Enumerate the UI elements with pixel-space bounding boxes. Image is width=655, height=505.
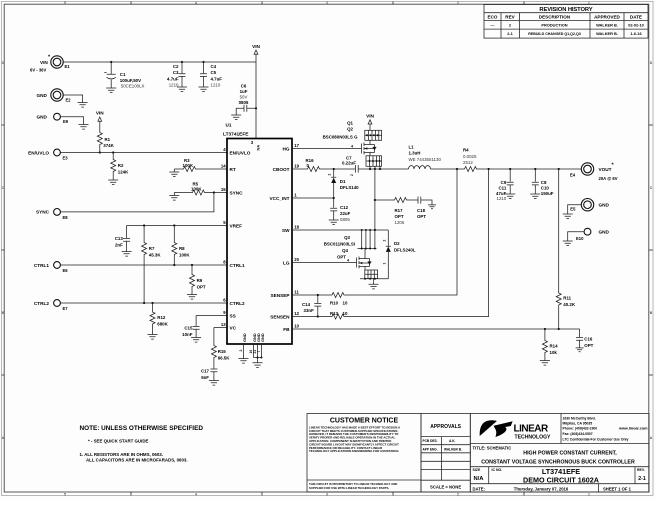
svg-text:C13: C13: [115, 236, 124, 241]
resistor R12: [148, 303, 169, 339]
svg-text:Phone: (408)432-1900: Phone: (408)432-1900: [563, 427, 598, 431]
svg-text:E7: E7: [63, 306, 69, 311]
svg-text:C18: C18: [417, 208, 426, 213]
svg-text:1210: 1210: [211, 83, 221, 88]
resistor R9: [187, 265, 206, 299]
VIN net arrow (top rail): [252, 44, 260, 62]
svg-text:R13: R13: [330, 311, 339, 316]
capacitor C16: [576, 329, 594, 352]
transistor Q3 source block: [360, 270, 388, 280]
svg-text:1210: 1210: [169, 83, 179, 88]
svg-text:4: 4: [195, 492, 197, 496]
svg-text:2: 2: [328, 174, 332, 176]
svg-text:E2: E2: [66, 98, 72, 103]
svg-text:Q2: Q2: [347, 127, 353, 132]
diode D2: [383, 230, 416, 279]
capacitor C14: [302, 295, 321, 318]
op-amp U1 LT3741EFE chip: [221, 123, 300, 345]
svg-text:4: 4: [195, 1, 197, 5]
svg-text:SYNC: SYNC: [36, 210, 50, 215]
svg-text:50V: 50V: [240, 94, 248, 99]
svg-text:DFLS140: DFLS140: [340, 185, 359, 190]
svg-text:DATE: DATE: [630, 14, 642, 19]
svg-text:11: 11: [294, 289, 299, 294]
svg-text:33nF: 33nF: [304, 308, 315, 313]
svg-text:REV: REV: [505, 14, 515, 19]
svg-text:www.linear.com: www.linear.com: [618, 427, 648, 431]
svg-text:0.22uF: 0.22uF: [342, 161, 356, 166]
svg-text:GND: GND: [37, 115, 48, 120]
wire HG: [292, 145, 362, 149]
svg-text:TECHNOLOGY APPLICATIONS ENGINE: TECHNOLOGY APPLICATIONS ENGINEERING FOR …: [309, 449, 399, 453]
svg-text:R11: R11: [563, 296, 571, 301]
capacitor C13: [115, 226, 132, 257]
svg-text:ECO: ECO: [488, 14, 498, 19]
svg-text:REBUILD CHANGED Q1,Q2,Q3: REBUILD CHANGED Q1,Q2,Q3: [528, 32, 581, 36]
wire LG: [292, 259, 357, 263]
svg-text:13: 13: [221, 322, 226, 327]
diode D1: [328, 169, 360, 198]
capacitor C17: [201, 369, 219, 386]
resistor R17: [375, 198, 418, 226]
svg-text:DATE:: DATE:: [473, 486, 485, 491]
svg-text:C3: C3: [173, 70, 179, 75]
ground under Q3: [369, 279, 379, 289]
wire SS: [196, 315, 227, 317]
svg-text:0.0025: 0.0025: [463, 154, 477, 159]
svg-text:C12: C12: [340, 205, 349, 210]
svg-text:R2: R2: [118, 163, 124, 168]
svg-text:SCALE = NONE: SCALE = NONE: [430, 485, 461, 490]
chip bottom ground pin 2: [239, 344, 249, 363]
svg-text:2-1: 2-1: [507, 31, 513, 36]
svg-text:47uF: 47uF: [496, 191, 507, 196]
svg-text:SHEET 1 OF 1: SHEET 1 OF 1: [603, 486, 632, 491]
svg-text:GND: GND: [599, 203, 610, 208]
svg-text:ALL CAPACITORS ARE IN MICROFAR: ALL CAPACITORS ARE IN MICROFARADS, 0603.: [86, 458, 188, 463]
wire SENSEN: [292, 169, 489, 317]
svg-text:VREF: VREF: [230, 223, 243, 228]
svg-text:E3: E3: [63, 156, 69, 161]
resistor R16: [292, 158, 334, 172]
wire EN/UVLO: [60, 152, 227, 154]
svg-text:C4: C4: [211, 64, 217, 69]
resistor R3: [169, 158, 227, 177]
svg-text:3: 3: [326, 1, 328, 5]
wire SENSEP: [292, 169, 457, 296]
svg-text:2nF: 2nF: [115, 243, 123, 248]
terminal E2 GND: [37, 89, 88, 107]
svg-text:Milpitas, CA 95035: Milpitas, CA 95035: [563, 422, 593, 426]
svg-text:R9: R9: [197, 278, 203, 283]
svg-text:10: 10: [343, 311, 348, 316]
svg-text:R4: R4: [463, 148, 469, 153]
svg-text:REVISION HISTORY: REVISION HISTORY: [539, 7, 592, 13]
svg-text:C8: C8: [541, 180, 547, 185]
svg-text:E6: E6: [63, 268, 69, 273]
svg-text:SS: SS: [230, 313, 236, 318]
svg-text:U1: U1: [226, 123, 232, 128]
svg-text:WALKER B.: WALKER B.: [444, 447, 462, 451]
terminal E5 GND: [563, 199, 610, 219]
svg-text:R15: R15: [218, 349, 227, 354]
svg-text:VIN: VIN: [96, 111, 104, 116]
svg-text:TITLE: SCHEMATIC: TITLE: SCHEMATIC: [473, 445, 512, 450]
resistor R11: [556, 169, 576, 330]
capacitor C7: [333, 156, 409, 177]
svg-text:SUPPLIED FOR USE WITH LINEAR T: SUPPLIED FOR USE WITH LINEAR TECHNOLOGY …: [309, 486, 389, 490]
resistor R1: [97, 131, 114, 154]
svg-text:E5: E5: [570, 206, 576, 211]
svg-text:1210: 1210: [497, 196, 507, 201]
svg-text:66.5K: 66.5K: [218, 356, 231, 361]
svg-text:VIN: VIN: [252, 44, 260, 49]
svg-text:DFLS240L: DFLS240L: [394, 247, 416, 252]
terminal E3 EN/UVLO: [28, 149, 68, 160]
terminal E1 VIN: [30, 55, 70, 73]
svg-text:NOTE: UNLESS OTHERWISE SPECIFI: NOTE: UNLESS OTHERWISE SPECIFIED: [80, 425, 204, 432]
capacitor C4 C5: [199, 62, 223, 92]
terminal E10 GND: [563, 228, 610, 245]
svg-text:10: 10: [294, 323, 299, 328]
svg-text:0805: 0805: [239, 100, 249, 105]
customer notice block: [307, 414, 421, 493]
svg-text:40.2K: 40.2K: [563, 302, 576, 307]
svg-text:R17: R17: [395, 208, 404, 213]
svg-text:E9: E9: [63, 119, 69, 124]
svg-text:C11: C11: [498, 185, 506, 190]
svg-text:OPT: OPT: [337, 254, 346, 259]
svg-text:DEMO CIRCUIT 1602A: DEMO CIRCUIT 1602A: [523, 476, 599, 485]
svg-text:1. ALL RESISTORS ARE IN OHMS,: 1. ALL RESISTORS ARE IN OHMS, 0603.: [80, 452, 163, 457]
wire VREF: [127, 224, 227, 226]
svg-text:RT: RT: [230, 167, 236, 172]
svg-text:02-02-10: 02-02-10: [628, 23, 644, 28]
capacitor C2 C3: [167, 62, 187, 92]
svg-text:5: 5: [64, 1, 66, 5]
svg-text:C1: C1: [120, 72, 126, 77]
transistor Q3 mosfet: [357, 249, 372, 271]
svg-text:D1: D1: [340, 179, 346, 184]
VIN net arrow (Q1): [366, 114, 374, 131]
svg-text:LTC Confidential-For Customer: LTC Confidential-For Customer Use Only: [563, 438, 629, 442]
svg-text:680K: 680K: [157, 322, 168, 327]
svg-text:REV.: REV.: [637, 468, 645, 472]
svg-text:EN/UVLO: EN/UVLO: [28, 150, 49, 155]
svg-text:C2: C2: [173, 64, 179, 69]
svg-text:NA: NA: [256, 145, 261, 151]
terminal E9 GND: [37, 113, 89, 129]
svg-text:7: 7: [257, 351, 261, 353]
svg-text:IC NO.: IC NO.: [492, 468, 503, 472]
svg-text:VIN: VIN: [40, 60, 48, 65]
svg-text:100K: 100K: [191, 187, 202, 192]
svg-text:GND: GND: [260, 333, 265, 342]
capacitor C15: [182, 316, 201, 343]
svg-text:CTRL2: CTRL2: [34, 301, 49, 306]
svg-text:LINEAR: LINEAR: [514, 424, 550, 435]
svg-text:3: 3: [326, 492, 328, 496]
capacitor C8 C10: [530, 169, 554, 199]
svg-text:WE 7443551130: WE 7443551130: [409, 157, 442, 162]
svg-text:VC: VC: [230, 325, 237, 330]
svg-text:5: 5: [64, 492, 66, 496]
svg-text:CUSTOMER NOTICE: CUSTOMER NOTICE: [330, 418, 399, 425]
svg-text:5nF: 5nF: [201, 375, 209, 380]
svg-text:CTRL2: CTRL2: [230, 301, 245, 306]
svg-text:E1: E1: [65, 64, 71, 69]
svg-text:C17: C17: [201, 369, 210, 374]
svg-text:SIZE: SIZE: [473, 468, 481, 472]
svg-text:LT3741EFE: LT3741EFE: [223, 132, 249, 138]
svg-text:10nF: 10nF: [182, 332, 193, 337]
svg-text:* - SEE QUICK START GUIDE: * - SEE QUICK START GUIDE: [88, 439, 148, 444]
svg-text:OPT: OPT: [197, 285, 206, 290]
svg-text:2-1: 2-1: [638, 476, 646, 482]
svg-text:6V - 36V: 6V - 36V: [30, 68, 47, 73]
svg-text:R7: R7: [149, 246, 155, 251]
svg-text:CBOOT: CBOOT: [273, 167, 290, 172]
svg-text:PCB DES.: PCB DES.: [423, 439, 438, 443]
svg-text:150uF: 150uF: [541, 191, 554, 196]
svg-text:HIGH POWER CONSTANT CURRENT,: HIGH POWER CONSTANT CURRENT,: [523, 451, 617, 457]
capacitor C18: [417, 197, 436, 220]
capacitor C1: [104, 62, 144, 93]
svg-text:PRODUCTION: PRODUCTION: [541, 23, 567, 28]
LT logo: [480, 420, 551, 440]
svg-text:R8: R8: [179, 246, 185, 251]
svg-text:C16: C16: [584, 337, 593, 342]
resistor R5: [169, 182, 227, 201]
svg-text:OPT: OPT: [417, 214, 426, 219]
svg-text:BSC080N03LS G: BSC080N03LS G: [323, 134, 358, 139]
svg-text:GND: GND: [37, 93, 48, 98]
svg-text:22uF: 22uF: [340, 211, 351, 216]
svg-text:Fax: (408)434-0507: Fax: (408)434-0507: [563, 432, 593, 436]
svg-text:APPROVALS: APPROVALS: [430, 424, 461, 430]
chip bottom ground pins 16 21 7: [249, 344, 262, 367]
svg-text:LG: LG: [283, 260, 290, 265]
svg-text:1: 1: [383, 263, 387, 265]
svg-text:E4: E4: [570, 172, 576, 177]
svg-text:2: 2: [350, 174, 354, 176]
wire SYNC: [60, 193, 214, 212]
svg-text:OPT: OPT: [584, 343, 593, 348]
revision history table: [484, 5, 648, 39]
svg-text:DESCRIPTION: DESCRIPTION: [539, 14, 571, 19]
svg-text:17: 17: [294, 143, 299, 148]
svg-text:CTRL1: CTRL1: [34, 263, 49, 268]
svg-text:124K: 124K: [118, 170, 129, 175]
svg-text:CONSTANT VOLTAGE SYNCHRONOUS B: CONSTANT VOLTAGE SYNCHRONOUS BUCK CONTRO…: [481, 459, 635, 465]
svg-text:10: 10: [343, 300, 348, 305]
svg-text:2: 2: [383, 240, 387, 242]
svg-text:TECHNOLOGY: TECHNOLOGY: [515, 435, 552, 441]
svg-text:APPROVED: APPROVED: [594, 14, 620, 19]
svg-text:C15: C15: [184, 326, 193, 331]
VIN net arrow (R1): [96, 111, 104, 132]
svg-text:Thursday, January 07, 2016: Thursday, January 07, 2016: [514, 486, 569, 491]
svg-text:EN/UVLO: EN/UVLO: [230, 150, 251, 155]
resistor R13: [330, 311, 348, 319]
svg-text:14: 14: [221, 163, 226, 168]
wire CTRL2: [60, 302, 227, 304]
svg-text:100uF,50V: 100uF,50V: [120, 78, 141, 83]
svg-text:E10: E10: [576, 236, 584, 241]
svg-text:C9: C9: [501, 180, 507, 185]
svg-text:A.K.: A.K.: [449, 439, 455, 443]
terminal E8 SYNC: [36, 209, 68, 220]
svg-text:2512: 2512: [463, 160, 473, 165]
transistor Q1 mosfet: [362, 140, 377, 156]
resistor R2: [108, 151, 129, 184]
terminal E4 VOUT: [570, 163, 618, 182]
svg-text:SENSEN: SENSEN: [270, 314, 290, 319]
svg-text:R12: R12: [157, 315, 166, 320]
svg-text:VOUT: VOUT: [599, 167, 612, 172]
transistor Q1 source block: [366, 156, 382, 169]
svg-text:18: 18: [294, 224, 299, 229]
svg-text:0805: 0805: [340, 217, 350, 222]
svg-text:C5: C5: [211, 70, 217, 75]
notes: [80, 425, 204, 463]
wire CTRL1: [60, 264, 227, 266]
svg-text:Q3: Q3: [344, 235, 350, 240]
svg-text:Q1: Q1: [347, 121, 353, 126]
svg-text:C14: C14: [302, 302, 311, 307]
svg-text:SW: SW: [282, 228, 290, 233]
svg-text:1uF: 1uF: [240, 89, 248, 94]
resistor R8: [172, 226, 191, 266]
resistor R10: [330, 293, 348, 306]
svg-text:50CE100LX: 50CE100LX: [121, 84, 145, 89]
approvals block: [421, 414, 470, 493]
svg-text:WALKER B.: WALKER B.: [596, 31, 618, 36]
terminal E7 CTRL2: [34, 300, 68, 311]
svg-text:2: 2: [457, 492, 459, 496]
svg-text:CTRL1: CTRL1: [230, 263, 245, 268]
transistor Q3 Q4 labels: [324, 235, 355, 259]
svg-text:4.7uF: 4.7uF: [167, 76, 179, 81]
svg-text:Q4: Q4: [342, 248, 348, 253]
wire VCC_INT: [292, 197, 335, 199]
svg-text:2: 2: [457, 1, 459, 5]
svg-text:1.3uH: 1.3uH: [409, 151, 421, 156]
svg-text:374K: 374K: [103, 143, 114, 148]
svg-text:20A @ 6V: 20A @ 6V: [599, 176, 618, 181]
transistor Q3 Q4 drain bus: [358, 230, 377, 250]
title block: [470, 414, 649, 493]
svg-text:R14: R14: [550, 344, 559, 349]
wire FB: [292, 328, 580, 330]
svg-text:100K: 100K: [179, 253, 190, 258]
svg-text:1-6-16: 1-6-16: [630, 31, 642, 36]
svg-text:15: 15: [221, 187, 226, 192]
svg-text:GND: GND: [599, 230, 610, 235]
resistor R14: [540, 329, 558, 365]
svg-text:19: 19: [294, 163, 299, 168]
svg-text:VIN: VIN: [366, 114, 374, 119]
inductor L1: [409, 144, 464, 169]
svg-text:12: 12: [294, 311, 299, 316]
terminal E6 CTRL1: [34, 262, 68, 273]
svg-text:R1: R1: [105, 137, 111, 142]
resistor R15: [211, 328, 230, 369]
svg-text:OPT: OPT: [395, 214, 404, 219]
svg-text:VCC_INT: VCC_INT: [269, 196, 289, 201]
svg-text:D2: D2: [394, 241, 400, 246]
svg-text:1206: 1206: [395, 220, 405, 225]
svg-text:20: 20: [294, 257, 299, 262]
svg-text:L1: L1: [409, 144, 415, 149]
capacitor C12: [329, 198, 351, 225]
resistor R4: [456, 148, 581, 172]
svg-text:BSC011N03LSI: BSC011N03LSI: [324, 241, 355, 246]
wire VIN rail: [63, 61, 256, 139]
svg-text:SENSEP: SENSEP: [270, 293, 289, 298]
svg-text:4.7uF: 4.7uF: [211, 76, 223, 81]
svg-text:WALKER B.: WALKER B.: [596, 23, 618, 28]
svg-text:10k: 10k: [550, 350, 558, 355]
svg-text:GND: GND: [242, 333, 247, 342]
svg-text:HG: HG: [282, 146, 289, 151]
svg-text:SYNC: SYNC: [230, 190, 244, 195]
svg-text:APP ENG.: APP ENG.: [423, 447, 438, 451]
svg-text:—: —: [491, 23, 495, 28]
wire SW: [292, 169, 388, 231]
svg-text:1630 McCarthy Blvd.: 1630 McCarthy Blvd.: [563, 416, 596, 420]
svg-text:N/A: N/A: [474, 476, 485, 482]
svg-text:C10: C10: [541, 185, 550, 190]
svg-text:FB: FB: [283, 327, 290, 332]
svg-text:1: 1: [588, 492, 590, 496]
svg-text:45.3K: 45.3K: [149, 253, 162, 258]
svg-text:C6: C6: [241, 83, 247, 88]
capacitor C6: [231, 83, 257, 119]
transistor Q1 Q2 package block: [323, 121, 382, 141]
capacitor C9 C11: [496, 169, 515, 201]
resistor R7: [142, 226, 162, 304]
svg-text:100K: 100K: [183, 163, 194, 168]
svg-text:R10: R10: [330, 300, 339, 305]
svg-text:2: 2: [239, 350, 243, 352]
svg-text:E8: E8: [63, 215, 69, 220]
